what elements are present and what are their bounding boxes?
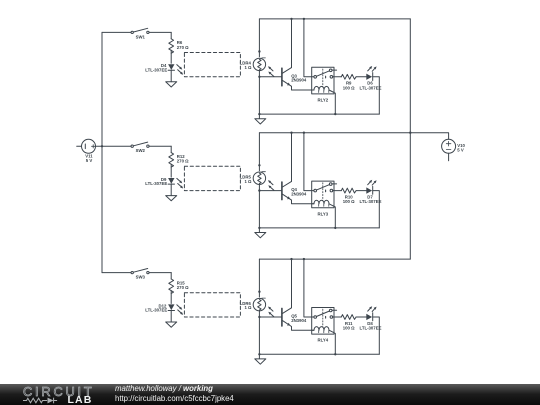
svg-text:LTL-307EE: LTL-307EE bbox=[360, 199, 382, 204]
svg-text:2N3904: 2N3904 bbox=[291, 318, 307, 323]
svg-text:270 Ω: 270 Ω bbox=[177, 45, 189, 50]
svg-text:100 Ω: 100 Ω bbox=[343, 326, 355, 331]
svg-text:LTL-307EE: LTL-307EE bbox=[360, 326, 382, 331]
svg-text:2N3904: 2N3904 bbox=[291, 192, 307, 197]
svg-text:270 Ω: 270 Ω bbox=[177, 285, 189, 290]
svg-text:LTL-307EE: LTL-307EE bbox=[145, 67, 167, 72]
svg-text:5 V: 5 V bbox=[86, 158, 93, 163]
svg-text:100 Ω: 100 Ω bbox=[343, 85, 355, 90]
svg-text:1 Ω: 1 Ω bbox=[244, 65, 252, 70]
svg-text:100 Ω: 100 Ω bbox=[343, 199, 355, 204]
svg-text:LTL-307EE: LTL-307EE bbox=[360, 85, 382, 90]
svg-text:5 V: 5 V bbox=[457, 148, 464, 153]
svg-text:2N3904: 2N3904 bbox=[291, 78, 307, 83]
svg-text:1 Ω: 1 Ω bbox=[244, 305, 252, 310]
svg-text:RLY4: RLY4 bbox=[318, 338, 329, 343]
svg-text:1 Ω: 1 Ω bbox=[244, 179, 252, 184]
svg-text:LTL-307EE: LTL-307EE bbox=[145, 308, 167, 313]
svg-text:LTL-307EE: LTL-307EE bbox=[145, 181, 167, 186]
svg-text:SW2: SW2 bbox=[136, 148, 146, 153]
svg-text:RLY2: RLY2 bbox=[318, 98, 329, 103]
svg-text:270 Ω: 270 Ω bbox=[177, 159, 189, 164]
svg-text:SW1: SW1 bbox=[136, 34, 146, 39]
svg-text:RLY3: RLY3 bbox=[318, 211, 329, 216]
svg-text:SW3: SW3 bbox=[136, 275, 146, 280]
